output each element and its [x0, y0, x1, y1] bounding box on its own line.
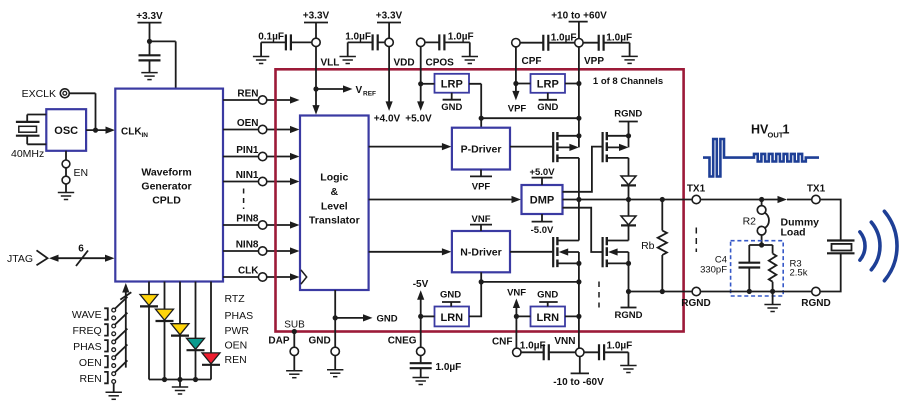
svg-text:CPLD: CPLD	[152, 195, 181, 207]
crystal 40MHz	[11, 115, 46, 161]
wire switch bus to CPLD	[120, 283, 131, 368]
ground 0.1uF	[253, 57, 269, 64]
node VNF N-Driver	[470, 214, 492, 231]
svg-text:Generator: Generator	[141, 181, 191, 193]
svg-text:P-Driver: P-Driver	[461, 143, 502, 155]
svg-text:OSC: OSC	[54, 125, 78, 137]
svg-text:0.1µF: 0.1µF	[258, 32, 284, 43]
svg-text:PIN1: PIN1	[236, 145, 259, 156]
svg-text:REN: REN	[80, 373, 102, 385]
damper DMP U7	[522, 185, 563, 214]
capacitor 1.0uF CNF	[520, 341, 576, 361]
regulator LRN U9	[516, 307, 579, 327]
signal REN	[223, 88, 300, 104]
ground LRP U2	[441, 93, 462, 113]
svg-text:EXCLK: EXCLK	[22, 88, 56, 100]
wire DMP to damping NFET gate	[563, 208, 602, 252]
svg-text:DAP: DAP	[268, 336, 289, 347]
wire VDD +4.0V	[374, 47, 401, 125]
ground dummy load	[764, 291, 780, 311]
svg-text:HV: HV	[751, 123, 769, 137]
svg-text:JTAG: JTAG	[7, 253, 33, 265]
ground LRP U3	[537, 93, 558, 113]
ground LRN U9	[537, 290, 558, 307]
LED D3 yellow PWR	[171, 282, 189, 380]
pin CPOS	[417, 38, 455, 68]
svg-text:LRN: LRN	[536, 312, 559, 324]
logic level translator U4	[300, 116, 369, 291]
pin CNEG	[388, 336, 425, 356]
svg-text:Waveform: Waveform	[141, 167, 191, 179]
ground GND pin	[327, 370, 343, 377]
wire translator to N-Driver	[369, 248, 452, 255]
diode D7	[621, 200, 636, 241]
svg-text:+3.3V: +3.3V	[136, 11, 163, 22]
switch REN	[80, 360, 128, 384]
channel boundary box 1 of 8	[276, 69, 684, 331]
svg-text:+10 to +60V: +10 to +60V	[551, 11, 607, 22]
ground EN	[58, 193, 74, 200]
signal PIN8	[223, 213, 300, 229]
driver N-Driver U6	[452, 231, 510, 272]
regulator LRP U2	[421, 74, 469, 93]
regulator LRP U3	[516, 74, 579, 93]
wire TX output line	[563, 197, 693, 202]
sound waves	[860, 211, 897, 280]
svg-text:-10 to -60V: -10 to -60V	[553, 377, 604, 388]
pin VLL	[312, 38, 340, 68]
oscillator OSC	[46, 109, 86, 151]
wire DMP to damping PFET gate	[563, 147, 602, 192]
svg-text:LRN: LRN	[440, 312, 463, 324]
svg-text:DMP: DMP	[530, 194, 554, 206]
label OEN	[225, 339, 248, 351]
wire dummy load top	[749, 245, 772, 263]
svg-text:RGND: RGND	[681, 298, 710, 309]
wire N-Driver to NFET gate	[510, 251, 552, 253]
node VPF P-Driver	[470, 170, 492, 193]
svg-text:REN: REN	[225, 354, 247, 366]
resistor R2	[743, 200, 769, 248]
svg-text:PIN8: PIN8	[236, 213, 259, 224]
pin RGND right	[801, 287, 830, 309]
connector JTAG	[7, 250, 48, 265]
pin VPP	[575, 39, 605, 68]
svg-text:VNN: VNN	[554, 336, 575, 347]
svg-text:-5V: -5V	[413, 279, 429, 290]
svg-text:Level: Level	[321, 200, 348, 212]
label Dummy Load	[781, 217, 820, 239]
power -10 to -60V	[553, 357, 604, 388]
power -5.0V DMP	[531, 214, 554, 236]
svg-text:NIN1: NIN1	[236, 170, 259, 181]
switch WAVE	[72, 297, 127, 321]
ellipsis signals	[243, 189, 245, 210]
svg-text:+4.0V: +4.0V	[374, 113, 401, 124]
diode D6	[621, 176, 636, 200]
svg-text:OEN: OEN	[225, 339, 248, 351]
svg-text:RTZ: RTZ	[225, 293, 246, 305]
svg-text:GND: GND	[537, 290, 558, 301]
node RGND top	[614, 109, 642, 136]
capacitor 0.1uF VLL	[258, 32, 311, 57]
capacitor 1.0uF VPP	[583, 32, 632, 56]
signal NIN8	[223, 239, 300, 255]
svg-text:GND: GND	[377, 313, 398, 324]
regulator LRN U8	[421, 307, 469, 327]
svg-text:R2: R2	[743, 216, 757, 228]
svg-text:N-Driver: N-Driver	[460, 246, 501, 258]
svg-text:RGND: RGND	[801, 298, 830, 309]
label RTZ	[225, 293, 246, 305]
svg-text:+5.0V: +5.0V	[405, 113, 432, 124]
power +10 to +60V	[551, 11, 607, 39]
transistor Q1 PMOS output	[553, 132, 581, 200]
svg-text:REF: REF	[363, 91, 376, 98]
svg-text:PHAS: PHAS	[225, 310, 254, 322]
svg-text:330pF: 330pF	[700, 264, 727, 275]
wire translator to GND pin	[333, 290, 338, 347]
wire TX1 to dummy load	[701, 196, 812, 203]
jumper EN	[62, 151, 88, 193]
svg-text:GND: GND	[440, 290, 461, 301]
pin TX1 left	[687, 183, 706, 203]
transistor Q4 NMOS damping	[603, 237, 632, 292]
power +3.3V CPLD supply	[136, 11, 163, 23]
ground 1.0uF VPP	[621, 56, 637, 63]
wire VPP down	[576, 47, 581, 136]
label REN	[225, 354, 247, 366]
capacitor 1.0uF VNN	[584, 341, 632, 366]
wire NMOS source to VNN	[576, 263, 581, 348]
transistor Q2 PMOS damping	[603, 132, 632, 176]
transducer piezo	[827, 241, 855, 254]
power +5.0V DMP	[529, 167, 555, 185]
wire EXCLK to CLK node	[69, 93, 98, 132]
switch OEN	[79, 345, 127, 369]
LED D2 yellow PHAS	[156, 282, 174, 380]
wire LRP to P-Driver rail	[469, 84, 579, 128]
node VREF	[316, 85, 376, 98]
svg-text:OUT: OUT	[768, 131, 784, 140]
svg-text:CPOS: CPOS	[426, 57, 455, 68]
ground 1.0uF CPOS	[462, 57, 478, 64]
ground 1.0uF VNN	[620, 366, 636, 373]
ground CPLD bypass	[141, 73, 157, 80]
svg-text:1.0µF: 1.0µF	[520, 341, 546, 352]
power +3.3V VLL	[303, 11, 330, 39]
svg-text:VNF: VNF	[472, 214, 491, 225]
svg-text:VDD: VDD	[394, 57, 415, 68]
svg-text:OEN: OEN	[79, 357, 102, 369]
svg-text:EN: EN	[74, 167, 89, 179]
capacitor 1.0uF CPF	[520, 32, 576, 50]
svg-text:TX1: TX1	[687, 183, 706, 194]
svg-text:GND: GND	[441, 102, 462, 113]
wire LED bus	[149, 377, 211, 382]
CPLD waveform generator U1	[115, 89, 223, 282]
label HVOUT1	[751, 123, 790, 140]
wire P-Driver to PFET gate	[510, 146, 552, 148]
svg-text:1.0µF: 1.0µF	[606, 32, 632, 43]
pin CNF	[492, 336, 521, 356]
pin VNN	[554, 336, 584, 357]
ground 1.0uF VDD	[340, 57, 356, 64]
svg-text:SUB: SUB	[284, 320, 305, 331]
wire LRN U8 to N-driver rail	[469, 272, 579, 316]
wire +3.3V to CPLD top	[147, 23, 176, 88]
pin TX1 right	[807, 183, 826, 203]
wire OSC output to CPLD CLKIN	[86, 127, 115, 134]
capacitor 1.0uF CPOS	[425, 32, 474, 57]
wire VLL to translator	[312, 47, 319, 115]
connector EXCLK	[22, 88, 70, 100]
svg-text:40MHz: 40MHz	[11, 148, 44, 160]
svg-text:PHAS: PHAS	[73, 341, 102, 353]
label PHAS	[225, 310, 254, 322]
svg-text:CNF: CNF	[492, 336, 513, 347]
LED D4 green OEN	[187, 282, 205, 380]
svg-text:6: 6	[78, 244, 84, 255]
resistor Rb	[641, 197, 667, 294]
svg-text:+5.0V: +5.0V	[529, 167, 555, 178]
wire RGND to dummy load	[701, 291, 812, 293]
ground LEDs	[172, 380, 188, 395]
svg-text:VPF: VPF	[472, 181, 491, 192]
waveform HVOUT	[703, 139, 819, 177]
pin CPF	[512, 39, 542, 68]
signal OEN	[223, 118, 300, 134]
svg-text:WAVE: WAVE	[72, 309, 102, 321]
svg-text:+3.3V: +3.3V	[303, 11, 330, 22]
svg-text:VPP: VPP	[584, 56, 604, 67]
svg-text:2.5k: 2.5k	[790, 268, 808, 279]
node SUB	[284, 320, 305, 335]
LED D5 red REN	[202, 282, 220, 380]
LED D1 yellow RTZ	[140, 282, 158, 380]
switch FREQ	[73, 313, 128, 337]
svg-text:CPF: CPF	[522, 56, 542, 67]
ground CNEG	[413, 378, 429, 385]
svg-text:LRP: LRP	[537, 79, 559, 91]
svg-text:Load: Load	[781, 226, 806, 238]
svg-text:FREQ: FREQ	[73, 325, 102, 337]
wire to transducer	[820, 200, 841, 292]
wire CPF VPF arrow	[508, 47, 527, 115]
pin CLKIN label	[121, 126, 148, 139]
pin DAP	[268, 332, 298, 371]
svg-text:GND: GND	[537, 102, 558, 113]
signal NIN1	[223, 170, 300, 186]
svg-text:IN: IN	[142, 132, 149, 139]
node VNF arrow	[507, 288, 526, 319]
svg-text:NIN8: NIN8	[236, 239, 259, 250]
signal CLK	[223, 265, 300, 281]
svg-text:1.0µF: 1.0µF	[607, 341, 633, 352]
svg-text:1.0µF: 1.0µF	[448, 32, 474, 43]
wire translator to DMP	[369, 196, 521, 203]
svg-text:TX1: TX1	[807, 183, 826, 194]
wire translator to P-Driver	[369, 143, 452, 150]
ellipsis channels	[598, 282, 600, 308]
svg-text:1: 1	[783, 123, 790, 137]
svg-text:Translator: Translator	[309, 215, 360, 227]
capacitor 1.0uF CNEG	[410, 356, 462, 378]
pin GND	[308, 336, 339, 370]
power +3.3V VDD	[376, 11, 403, 39]
transistor Q3 NMOS output	[553, 200, 581, 268]
svg-text:RGND: RGND	[615, 310, 643, 321]
svg-text:REN: REN	[237, 88, 258, 99]
svg-text:PWR: PWR	[225, 325, 250, 337]
svg-text:CNEG: CNEG	[388, 336, 417, 347]
svg-text:V: V	[356, 85, 363, 96]
pin VDD	[385, 38, 415, 68]
wire VNF to CNF pin	[515, 316, 517, 348]
svg-text:1.0µF: 1.0µF	[345, 32, 371, 43]
svg-text:OEN: OEN	[237, 118, 259, 129]
signal PIN1	[223, 145, 300, 161]
ellipsis TX channels	[695, 228, 697, 253]
svg-text:VPF: VPF	[508, 104, 527, 115]
svg-text:GND: GND	[308, 336, 330, 347]
svg-text:VNF: VNF	[507, 288, 526, 299]
clock input chevron	[301, 270, 307, 284]
capacitor C4 330pF	[700, 254, 760, 294]
capacitor CPLD bypass	[139, 41, 161, 72]
capacitor 1.0uF VDD	[345, 32, 385, 57]
svg-text:Rb: Rb	[641, 240, 655, 252]
wire JTAG bus	[49, 244, 115, 267]
svg-text:1 of 8 Channels: 1 of 8 Channels	[593, 76, 663, 87]
svg-text:1.0µF: 1.0µF	[551, 32, 577, 43]
wire RGND line	[629, 291, 693, 293]
svg-text:-5.0V: -5.0V	[531, 225, 554, 236]
label PWR	[225, 325, 250, 337]
svg-text:Logic: Logic	[320, 171, 348, 183]
wire CPOS +5.0V	[405, 47, 432, 125]
pin RGND left	[681, 287, 710, 309]
svg-text:+3.3V: +3.3V	[376, 11, 403, 22]
svg-text:LRP: LRP	[441, 79, 463, 91]
driver P-Driver U5	[452, 128, 510, 170]
svg-text:CLK: CLK	[238, 265, 259, 276]
svg-text:1.0µF: 1.0µF	[436, 362, 462, 373]
node GND arrow	[335, 313, 398, 324]
ground RGND damping	[615, 289, 643, 321]
svg-text:CLK: CLK	[121, 126, 142, 137]
switch PHAS	[73, 329, 127, 353]
svg-text:&: &	[331, 186, 339, 198]
svg-text:VLL: VLL	[321, 57, 340, 68]
resistor R3 2.5k	[769, 254, 808, 295]
power -5V node	[413, 279, 429, 347]
dummy load dashed box	[731, 241, 784, 296]
ground DAP	[286, 371, 302, 378]
ground switches	[106, 384, 122, 400]
ground LRN U8	[440, 290, 461, 307]
svg-text:RGND: RGND	[614, 109, 642, 120]
